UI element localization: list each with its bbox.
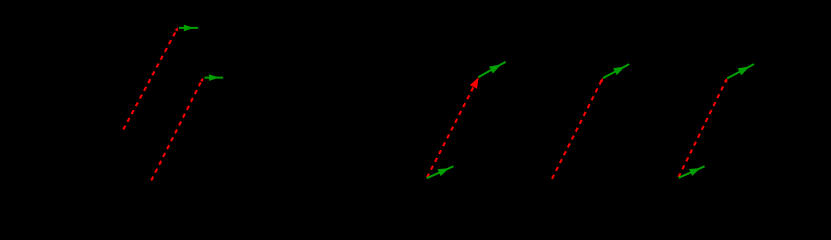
group 5 : rightmost xyxy=(677,61,756,182)
spin arrow S5b : green tilted arrow bottom xyxy=(677,163,706,181)
node B : small red arrowhead tip 2 xyxy=(200,78,203,82)
node D : small red arrowhead tip 4 xyxy=(600,78,603,82)
group 2 : left pair lower xyxy=(151,74,223,180)
wire : red dashed displacement line 3 xyxy=(427,85,475,178)
wire : red dashed displacement line 4 xyxy=(552,79,602,179)
wire : red dashed displacement line 1 xyxy=(123,29,177,130)
group 4 : right-centre, no bottom spin xyxy=(552,61,631,179)
spin arrow S4 : green tilted arrow top xyxy=(601,61,631,82)
node A : small red arrowhead tip 1 xyxy=(175,27,178,31)
node C : large red arrowhead tip 3 xyxy=(470,77,479,89)
spin arrow S2 : green horizontal arrow xyxy=(205,74,224,81)
spin arrow S1 : green horizontal arrow xyxy=(179,25,198,32)
group 3 : centre with large red arrowhead xyxy=(425,58,507,181)
wire : red dashed displacement line 5 xyxy=(679,80,727,178)
node E : small red arrowhead tip 5 xyxy=(724,78,727,82)
group 1 : left pair upper xyxy=(123,25,198,130)
spin arrow S3b : green tilted arrow bottom xyxy=(425,163,455,182)
spin arrow S5t : green tilted arrow top xyxy=(725,61,756,82)
spin arrow S3t : green tilted arrow top xyxy=(476,58,507,80)
wire : red dashed displacement line 2 xyxy=(151,79,202,181)
